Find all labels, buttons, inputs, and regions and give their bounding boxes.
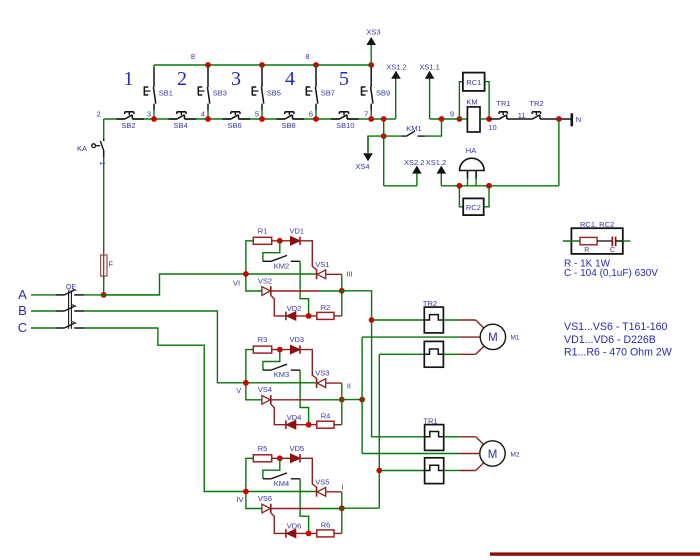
wire VS2 cathode to node III	[271, 290, 320, 292]
RC legend right stub	[616, 240, 631, 242]
svg-text:III: III	[346, 270, 352, 279]
svg-text:6: 6	[309, 109, 313, 118]
junction on control line	[259, 116, 265, 122]
connector XS4 (arrow down)	[367, 136, 369, 153]
svg-text:KA: KA	[77, 144, 87, 153]
connector XS1.2 (arrow up, control line end)	[395, 79, 397, 120]
svg-text:C - 104 (0,1uF) 630V: C - 104 (0,1uF) 630V	[564, 268, 658, 279]
svg-text:B: B	[18, 303, 27, 318]
svg-text:M2: M2	[511, 451, 520, 458]
wire phase A input	[31, 294, 56, 296]
RC legend box	[571, 228, 622, 254]
wire II to motor M2 middle	[362, 453, 459, 455]
thermal relay TR1 heater lower	[425, 458, 444, 484]
svg-text:C: C	[610, 247, 615, 254]
svg-text:7: 7	[364, 109, 368, 118]
svg-text:R2: R2	[321, 303, 331, 312]
wire alarm line left segment	[384, 185, 417, 187]
junction on control line	[313, 116, 319, 122]
fuse F	[103, 249, 105, 255]
thyristor VS5	[317, 487, 326, 497]
wire phase B input	[31, 310, 56, 312]
junction node I	[339, 505, 345, 511]
svg-text:R1...R6 - 470 Ohm 2W: R1...R6 - 470 Ohm 2W	[564, 346, 672, 358]
svg-text:8: 8	[305, 52, 309, 61]
wire II to motor M1 middle	[362, 336, 459, 338]
red footer bar	[490, 552, 700, 555]
circuit breaker QF pole B	[56, 305, 84, 311]
svg-text:XS4: XS4	[355, 162, 369, 171]
svg-text:3: 3	[231, 68, 241, 90]
junction VD6/KM4	[306, 531, 312, 537]
wire I tap to TR1 lower heater	[379, 470, 424, 472]
svg-text:SB6: SB6	[228, 121, 242, 130]
contact KM4 (NO)	[263, 458, 309, 533]
junction block input node	[243, 271, 249, 277]
junction alarm riser	[556, 116, 562, 122]
wire main control line left segment	[104, 118, 396, 120]
wire phase A to block 1	[84, 294, 160, 296]
wire R3 to VD3	[272, 349, 291, 351]
wire TR1 to TR2 contact (node 11)	[507, 118, 532, 120]
svg-text:VD6: VD6	[287, 522, 302, 531]
thyristor VS6	[262, 504, 286, 534]
svg-text:2: 2	[97, 109, 101, 118]
circuit breaker QF pole C	[56, 322, 84, 328]
thyristor VS1	[317, 269, 326, 279]
wire node line to VS6	[246, 492, 262, 509]
thyristor VS2	[262, 286, 286, 316]
wire R1 to VD1	[272, 240, 291, 242]
resistor R5	[253, 455, 271, 462]
relay contact KA (NO)	[92, 139, 104, 158]
wire KA to fuse	[103, 157, 105, 250]
wire R3 riser	[246, 350, 253, 383]
pushbutton SB4 (NC, horizontal)	[169, 112, 197, 130]
pushbutton SB2 (NC, horizontal)	[116, 112, 143, 130]
thermal relay TR2 heater upper	[424, 307, 443, 333]
svg-text:5: 5	[255, 109, 259, 118]
svg-text:R4: R4	[321, 412, 331, 421]
motor M1	[480, 324, 505, 349]
junction on control line	[205, 116, 211, 122]
junction control line / KM1 branch riser	[381, 116, 387, 122]
svg-text:9: 9	[450, 110, 454, 119]
junction on top bus at SB3 riser	[205, 62, 211, 68]
junction on top bus at SB7 riser	[313, 62, 319, 68]
wire R6 to node I	[334, 532, 342, 534]
junction block input node	[243, 489, 249, 495]
wire TR2 lower to M1	[443, 346, 484, 355]
svg-text:M: M	[488, 332, 498, 344]
pushbutton SB10 (NC, horizontal)	[331, 112, 359, 130]
wire RC2 right up	[484, 186, 489, 207]
resistor R4	[317, 421, 334, 428]
svg-text:2: 2	[177, 68, 187, 90]
svg-text:KM1: KM1	[406, 124, 421, 133]
svg-text:VS1...VS6 - T161-160: VS1...VS6 - T161-160	[564, 321, 668, 333]
thyristor VS4	[262, 395, 286, 425]
pushbutton SB8 (NC, horizontal)	[277, 112, 305, 130]
wire VD1 to VS1 gate	[300, 241, 317, 270]
svg-text:HA: HA	[466, 146, 476, 155]
wire III tap to TR2 upper heater	[372, 319, 425, 321]
motor M2	[480, 441, 505, 466]
junction block input node	[243, 380, 249, 386]
junction VD4/KM3	[306, 422, 312, 428]
wire VS3 anode to node II	[326, 382, 342, 384]
RC legend left stub	[563, 240, 580, 242]
resistor R3	[253, 346, 271, 353]
junction RC2 left	[457, 183, 463, 189]
svg-text:VD4: VD4	[287, 413, 302, 422]
circuit breaker QF pole A	[56, 289, 84, 295]
contact KM3 (NO)	[263, 350, 309, 425]
svg-text:QF: QF	[66, 284, 76, 291]
wire R4 to node II	[334, 424, 342, 426]
junction R3/KM3	[277, 347, 283, 353]
svg-text:SB1: SB1	[159, 89, 173, 98]
wire node line to VS4	[246, 383, 262, 400]
wire TR2 upper to M1	[443, 320, 484, 329]
svg-text:RC1: RC1	[466, 78, 481, 87]
legend wire R to C	[597, 240, 612, 242]
svg-text:VD1...VD6 - D226B: VD1...VD6 - D226B	[564, 334, 656, 346]
wire R5 riser	[246, 458, 253, 491]
svg-text:R: R	[584, 247, 589, 254]
wire fuse to phase A	[103, 276, 105, 295]
wire node II to middle column	[342, 399, 362, 401]
bell HA	[460, 158, 485, 186]
diode VD6	[286, 529, 296, 538]
junction node 10	[486, 116, 492, 122]
svg-text:VI: VI	[233, 279, 240, 288]
junction node II	[339, 397, 345, 403]
wire RC1 right down	[485, 82, 490, 119]
svg-text:KM3: KM3	[274, 370, 289, 379]
svg-text:VD1: VD1	[290, 226, 305, 235]
junction KM1 riser on control line	[439, 116, 445, 122]
wire XS1.1 corner to node 9	[430, 118, 460, 120]
wire VS4 cathode to node II	[271, 399, 320, 401]
svg-text:3: 3	[147, 109, 151, 118]
svg-text:A: A	[18, 287, 27, 302]
svg-text:4: 4	[201, 109, 205, 118]
pushbutton SB3 (NO, vertical)	[198, 65, 227, 119]
junction I / TR1 lower	[376, 468, 382, 474]
svg-text:TR1: TR1	[496, 99, 510, 108]
svg-text:SB4: SB4	[174, 121, 188, 130]
connector XS2.2 (arrow up)	[416, 173, 418, 186]
terminal N	[570, 113, 573, 126]
svg-text:VS3: VS3	[315, 369, 329, 378]
wire alarm riser	[558, 119, 560, 186]
svg-text:N: N	[576, 115, 581, 124]
wire TR1 upper to M2	[444, 437, 485, 445]
junction on control line	[368, 116, 374, 122]
junction node II column	[359, 397, 365, 403]
svg-text:SB3: SB3	[213, 89, 227, 98]
wire VD3 to VS3 gate	[300, 350, 317, 379]
junction node III	[339, 288, 345, 294]
pushbutton SB5 (NO, vertical)	[252, 65, 281, 119]
svg-text:IV: IV	[236, 495, 243, 504]
diode VD3	[291, 345, 301, 354]
svg-text:XS1.2: XS1.2	[386, 62, 406, 71]
svg-text:SB10: SB10	[336, 121, 354, 130]
svg-text:8: 8	[191, 52, 195, 61]
junction VD2/KM2	[306, 313, 312, 319]
svg-text:I: I	[341, 483, 343, 492]
diode VD5	[291, 454, 301, 463]
resistor R1	[253, 237, 271, 244]
svg-text:V: V	[236, 386, 241, 395]
wire phase B to block 2	[84, 311, 316, 383]
contact TR2 (NC thermal)	[532, 112, 541, 119]
wire VS5 anode to node I	[326, 491, 342, 493]
coil RC1 loop	[459, 82, 463, 119]
svg-text:R6: R6	[321, 520, 331, 529]
svg-text:1: 1	[124, 68, 134, 90]
wire phase C input	[31, 327, 56, 329]
svg-text:KM4: KM4	[274, 479, 289, 488]
junction R5/KM4	[277, 455, 283, 461]
wire VD6 to R6	[296, 532, 317, 534]
thermal relay TR2 heater lower	[424, 341, 443, 367]
junction node 9	[457, 116, 463, 122]
wire alarm line right segment	[441, 185, 559, 187]
svg-text:VS6: VS6	[258, 494, 272, 503]
wire VD4 to R4	[296, 424, 317, 426]
pushbutton SB6 (NC, horizontal)	[223, 112, 251, 130]
resistor R6	[317, 530, 334, 537]
thyristor VS3	[317, 378, 326, 388]
contact TR1 (NC thermal)	[489, 112, 507, 119]
wire KM1 riser down to alarm line	[383, 119, 385, 186]
wire R2 to node III	[334, 315, 342, 317]
svg-text:R5: R5	[258, 444, 268, 453]
snubber RC2 loop	[459, 186, 463, 207]
wire VS1 anode to node III	[326, 273, 342, 275]
svg-text:VD5: VD5	[290, 444, 305, 453]
wire node line to VS2	[246, 274, 262, 291]
wire I to TR2 lower heater	[379, 353, 424, 355]
svg-text:4: 4	[285, 68, 295, 90]
pushbutton SB9 (NO, vertical)	[362, 65, 391, 119]
wire KA branch from node 2 down	[103, 119, 105, 139]
svg-text:RC2: RC2	[466, 203, 481, 212]
svg-text:11: 11	[518, 111, 526, 120]
wire KM coil to node 10	[480, 118, 489, 120]
svg-text:II: II	[347, 382, 351, 391]
svg-text:VS2: VS2	[258, 276, 272, 285]
svg-text:10: 10	[488, 123, 496, 132]
diode VD1	[291, 237, 301, 246]
svg-text:XS3: XS3	[366, 28, 380, 37]
QF linkage bar	[69, 290, 72, 328]
wire node III to TR2 column	[342, 291, 425, 437]
pushbutton SB1 (NO, vertical)	[144, 65, 173, 119]
snubber RC2 box	[463, 198, 484, 215]
svg-text:M1: M1	[511, 335, 520, 342]
connector XS3 (arrow up)	[370, 45, 372, 65]
svg-text:C: C	[18, 320, 27, 335]
wire VD2 to R2	[296, 315, 317, 317]
svg-text:KM2: KM2	[274, 261, 289, 270]
svg-text:SB2: SB2	[121, 121, 135, 130]
junction RC2 right	[486, 183, 492, 189]
pushbutton SB7 (NO, vertical)	[306, 65, 335, 119]
svg-text:M: M	[488, 449, 498, 461]
wire node I to column	[342, 507, 380, 509]
svg-text:R3: R3	[258, 335, 268, 344]
svg-text:XS2.2: XS2.2	[404, 158, 424, 167]
wire TR2 contact to N	[540, 118, 571, 120]
diode VD2	[286, 312, 296, 321]
svg-text:SB5: SB5	[267, 89, 281, 98]
connector XS1.2 lower (arrow up)	[440, 173, 442, 186]
svg-text:SB7: SB7	[321, 89, 335, 98]
legend resistor R	[580, 237, 597, 244]
resistor R2	[317, 312, 334, 319]
svg-text:R1: R1	[258, 226, 268, 235]
wire R5 to VD5	[272, 457, 291, 459]
svg-text:VS1: VS1	[315, 260, 329, 269]
junction on control line	[151, 116, 157, 122]
junction III/TR2 upper	[369, 317, 375, 323]
contact KM1 (NO)	[368, 119, 442, 153]
junction R1/KM2	[277, 238, 283, 244]
junction fuse / phase A	[101, 292, 107, 298]
wire phase C to block 3	[84, 328, 316, 492]
svg-text:VS5: VS5	[315, 477, 329, 486]
svg-text:SB8: SB8	[282, 121, 296, 130]
svg-text:SB9: SB9	[376, 89, 390, 98]
wire R1 riser	[246, 241, 253, 274]
junction on top bus at SB5 riser	[259, 62, 265, 68]
wire TR1 lower to M2	[444, 462, 485, 470]
svg-text:XS1.2: XS1.2	[426, 158, 446, 167]
wire phase I column	[378, 354, 380, 508]
junction KM1 line / XS branch	[381, 133, 387, 139]
connector XS1.1 (arrow up)	[429, 79, 431, 120]
wire VS6 cathode to node I	[271, 508, 320, 510]
svg-text:F: F	[109, 260, 114, 269]
thermal relay TR1 heater upper	[425, 425, 444, 451]
svg-text:VD2: VD2	[287, 304, 302, 313]
legend capacitor C	[612, 237, 615, 247]
svg-text:VS4: VS4	[258, 385, 272, 394]
svg-text:XS1.1: XS1.1	[419, 62, 439, 71]
junction on top bus at SB9 riser	[368, 62, 374, 68]
snubber RC1 box	[463, 73, 485, 91]
wire phase II column (M1 and M2 middle)	[361, 337, 363, 453]
diode VD4	[286, 420, 296, 429]
svg-text:5: 5	[339, 68, 349, 90]
svg-text:TR2: TR2	[529, 99, 543, 108]
wire top bus node 8	[154, 64, 371, 66]
contactor coil KM	[459, 118, 467, 120]
svg-text:KM: KM	[466, 97, 477, 106]
wire VD5 to VS5 gate	[300, 458, 317, 487]
svg-text:VD3: VD3	[290, 335, 305, 344]
contact KM2 (NO)	[263, 241, 309, 316]
